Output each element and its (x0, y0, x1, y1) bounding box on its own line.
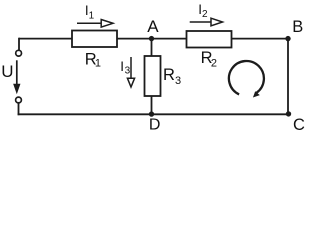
svg-text:2: 2 (211, 57, 217, 69)
svg-text:B: B (292, 18, 303, 36)
svg-text:3: 3 (125, 66, 131, 77)
svg-text:A: A (147, 17, 159, 36)
svg-text:U: U (1, 62, 13, 81)
svg-text:D: D (149, 117, 161, 134)
svg-text:1: 1 (95, 57, 101, 69)
svg-text:C: C (293, 116, 305, 134)
svg-text:R: R (163, 66, 175, 84)
svg-text:2: 2 (202, 9, 208, 20)
svg-text:3: 3 (175, 75, 181, 87)
svg-text:I: I (120, 59, 124, 74)
svg-text:1: 1 (89, 11, 95, 22)
